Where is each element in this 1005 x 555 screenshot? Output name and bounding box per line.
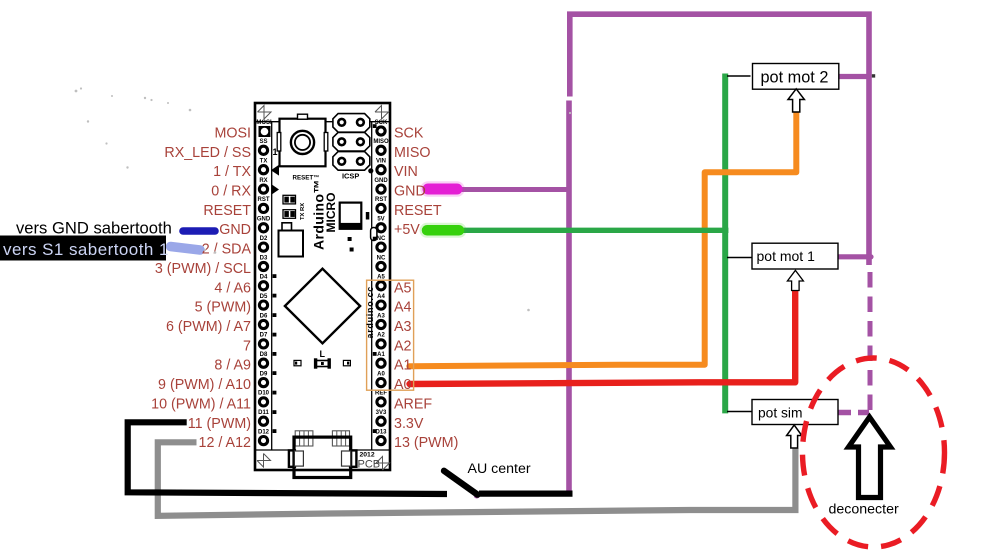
svg-text:7: 7 bbox=[243, 338, 251, 354]
svg-text:NC: NC bbox=[377, 236, 386, 242]
silk: corner fiducial TR bbox=[375, 106, 389, 120]
svg-text:12 / A12: 12 / A12 bbox=[199, 435, 252, 451]
node: purple pivot dot on switch bbox=[474, 492, 480, 498]
svg-text:GND: GND bbox=[219, 222, 251, 238]
svg-text:GND: GND bbox=[257, 217, 271, 223]
labels: right pin names (red) bbox=[394, 126, 458, 452]
svg-text:NC: NC bbox=[377, 255, 386, 261]
pin MOSI (square pad) bbox=[259, 126, 271, 137]
svg-text:1 / TX: 1 / TX bbox=[213, 164, 251, 180]
decorative specks bbox=[75, 87, 572, 311]
pin D11 bbox=[259, 417, 267, 425]
svg-text:D8: D8 bbox=[260, 352, 268, 358]
svg-text:MOSI: MOSI bbox=[214, 126, 251, 142]
silk: TX triangle bbox=[271, 165, 279, 176]
node: navy blob vers GND sabertooth bbox=[183, 227, 215, 235]
component: ICSP header U-ICSP bbox=[333, 114, 370, 171]
svg-text:ICSP: ICSP bbox=[342, 171, 359, 180]
pin A5 bbox=[377, 282, 385, 290]
pin RX bbox=[259, 185, 267, 193]
svg-text:1: 1 bbox=[273, 147, 278, 157]
svg-text:GND: GND bbox=[374, 178, 388, 184]
svg-text:A2: A2 bbox=[394, 338, 412, 354]
pin D2 bbox=[259, 243, 267, 251]
wire: black 11(PWM) to AU center switch bbox=[128, 422, 447, 494]
svg-text:A4: A4 bbox=[394, 300, 412, 316]
component: diamond logo bbox=[285, 269, 360, 344]
svg-text:L: L bbox=[320, 349, 326, 359]
svg-text:MISO: MISO bbox=[394, 145, 431, 161]
svg-text:D9: D9 bbox=[260, 371, 268, 377]
component: reset button bbox=[277, 114, 328, 166]
pin A4 bbox=[377, 301, 385, 309]
node: periwinkle blob vers S1 sabertooth bbox=[171, 247, 201, 251]
svg-text:8 / A9: 8 / A9 bbox=[214, 358, 251, 374]
svg-text:D3: D3 bbox=[260, 255, 268, 261]
pin RST bbox=[259, 204, 267, 212]
svg-text:pot mot 1: pot mot 1 bbox=[757, 248, 816, 264]
silk: RX triangle bbox=[272, 184, 280, 194]
svg-text:SCK: SCK bbox=[375, 120, 388, 126]
component: crystal square bbox=[279, 231, 304, 257]
svg-text:2 / SDA: 2 / SDA bbox=[202, 242, 252, 258]
board: pin strip lines bbox=[255, 121, 390, 123]
svg-text:MISO: MISO bbox=[373, 139, 389, 145]
component: side capsule bbox=[371, 228, 377, 241]
svg-text:A1: A1 bbox=[377, 352, 385, 358]
pin D12 bbox=[259, 437, 267, 445]
svg-text:3.3V: 3.3V bbox=[394, 416, 424, 432]
component: regulator chip bbox=[340, 203, 362, 229]
pin GND bbox=[259, 224, 267, 232]
svg-text:pot mot 2: pot mot 2 bbox=[761, 69, 829, 87]
silk: tiny pin names left bbox=[256, 120, 272, 435]
svg-text:pot sim: pot sim bbox=[758, 406, 802, 421]
svg-text:arduino.cc: arduino.cc bbox=[365, 286, 375, 339]
labels: left pin names (red) bbox=[151, 126, 251, 452]
wire: purple net (GND to top rail and pot boxes) bbox=[455, 14, 872, 492]
svg-text:11 (PWM): 11 (PWM) bbox=[188, 416, 251, 432]
svg-text:SS: SS bbox=[259, 139, 267, 145]
svg-text:D2: D2 bbox=[260, 236, 268, 242]
silk: corner fiducial BR bbox=[376, 457, 390, 471]
svg-text:TX RX: TX RX bbox=[300, 203, 306, 220]
pin A0 bbox=[377, 379, 385, 387]
svg-text:SCK: SCK bbox=[394, 126, 424, 142]
svg-text:A3: A3 bbox=[394, 319, 412, 335]
svg-text:REF: REF bbox=[375, 391, 387, 397]
svg-text:RST: RST bbox=[375, 197, 387, 203]
svg-text:5V: 5V bbox=[377, 217, 384, 223]
svg-text:PCB: PCB bbox=[358, 459, 381, 471]
svg-text:D12: D12 bbox=[258, 429, 270, 435]
box: pot mot 1 bbox=[727, 243, 838, 290]
pin NC bbox=[377, 262, 385, 270]
switch: AU center lever bbox=[444, 471, 478, 495]
svg-text:D11: D11 bbox=[258, 410, 269, 416]
svg-text:RX_LED / SS: RX_LED / SS bbox=[164, 145, 251, 161]
svg-text:A5: A5 bbox=[394, 280, 412, 296]
ARDUINO BOARD bbox=[255, 103, 390, 470]
pin D9 bbox=[259, 379, 267, 387]
svg-text:+5V: +5V bbox=[394, 222, 420, 238]
svg-text:AREF: AREF bbox=[394, 396, 432, 412]
silk: via pads bbox=[273, 124, 377, 433]
pin D13 bbox=[377, 437, 385, 445]
svg-text:10 (PWM) / A11: 10 (PWM) / A11 bbox=[151, 396, 251, 412]
pin TX bbox=[259, 166, 267, 174]
component: RX/TX leds bbox=[283, 195, 296, 218]
pin D5 bbox=[259, 301, 267, 309]
component: small resistor pads left/right of L bbox=[294, 360, 350, 365]
svg-text:5 (PWM): 5 (PWM) bbox=[195, 300, 251, 316]
wire: green +5V vertical bbox=[722, 74, 728, 414]
svg-text:D7: D7 bbox=[260, 333, 268, 339]
pin D10 bbox=[259, 398, 267, 406]
svg-text:TX: TX bbox=[260, 159, 268, 165]
pin A2 bbox=[377, 340, 385, 348]
pin SCK bbox=[377, 127, 385, 135]
silk: corner fiducial BL bbox=[257, 454, 271, 468]
svg-text:A3: A3 bbox=[377, 313, 385, 319]
wire: grey 12/A12 to pot sim bbox=[158, 442, 796, 516]
wire: black from switch to purple rail bbox=[479, 490, 573, 496]
svg-text:A2: A2 bbox=[377, 333, 385, 339]
pin 3V3 bbox=[377, 417, 385, 425]
svg-text:D6: D6 bbox=[260, 313, 268, 319]
box: pot sim bbox=[727, 400, 838, 449]
svg-text:D13: D13 bbox=[375, 429, 387, 435]
silk: corner fiducial TL bbox=[258, 106, 272, 120]
svg-text:MICRO: MICRO bbox=[324, 193, 338, 233]
svg-text:3V3: 3V3 bbox=[376, 410, 387, 416]
pin D6 bbox=[259, 320, 267, 328]
pin D7 bbox=[259, 340, 267, 348]
node: black dot at VIN bbox=[368, 168, 373, 173]
label: vers S1 sabertooth 1 bbox=[0, 236, 166, 261]
svg-text:A0: A0 bbox=[377, 371, 385, 377]
svg-text:VIN: VIN bbox=[376, 159, 386, 165]
svg-text:A4: A4 bbox=[377, 294, 385, 300]
pin A1 bbox=[377, 359, 385, 367]
svg-text:MOSI: MOSI bbox=[256, 120, 272, 126]
pin D3 bbox=[259, 262, 267, 270]
svg-text:RST: RST bbox=[258, 197, 270, 203]
annotation: red dashed ellipse deconecter bbox=[803, 358, 945, 547]
svg-text:RESET: RESET bbox=[394, 203, 442, 219]
box: pot mot 2 bbox=[727, 64, 839, 113]
svg-text:6 (PWM) / A7: 6 (PWM) / A7 bbox=[166, 319, 251, 335]
svg-text:D5: D5 bbox=[260, 294, 268, 300]
pin REF bbox=[377, 398, 385, 406]
svg-text:9 (PWM) / A10: 9 (PWM) / A10 bbox=[158, 377, 251, 393]
pin A3 bbox=[377, 320, 385, 328]
svg-text:D10: D10 bbox=[258, 391, 270, 397]
svg-text:RESET: RESET bbox=[203, 203, 251, 219]
svg-text:2012: 2012 bbox=[360, 452, 375, 459]
svg-text:vers GND sabertooth: vers GND sabertooth bbox=[16, 219, 172, 238]
wire: orange A1 to pot mot 2 bbox=[409, 112, 796, 367]
wire: red A0 to pot mot 1 bbox=[410, 291, 796, 385]
silk: tiny pin names right bbox=[373, 120, 389, 435]
board: outline bbox=[255, 103, 390, 470]
pin SS bbox=[259, 146, 267, 154]
pin D4 bbox=[259, 282, 267, 290]
svg-text:VIN: VIN bbox=[394, 164, 418, 180]
component: micro USB connector bbox=[289, 431, 357, 478]
pin D8 bbox=[259, 359, 267, 367]
svg-text:13 (PWM): 13 (PWM) bbox=[394, 435, 458, 451]
svg-text:RX: RX bbox=[259, 178, 267, 184]
svg-text:AU center: AU center bbox=[468, 461, 531, 477]
node: junction tick right of pot mot 2 bbox=[872, 74, 875, 77]
svg-text:A1: A1 bbox=[394, 358, 412, 374]
pin GND bbox=[377, 185, 385, 193]
svg-text:3 (PWM) / SCL: 3 (PWM) / SCL bbox=[155, 261, 251, 277]
node: green +5V blob at pin bbox=[427, 223, 459, 238]
component: small cap on crystal bbox=[282, 223, 292, 232]
pin 5V bbox=[377, 224, 385, 232]
pin NC bbox=[377, 243, 385, 251]
pin RST bbox=[377, 204, 385, 212]
pin MISO bbox=[377, 146, 385, 154]
svg-text:vers S1 sabertooth 1: vers S1 sabertooth 1 bbox=[3, 240, 169, 259]
svg-text:GND: GND bbox=[394, 184, 426, 200]
svg-text:0 / RX: 0 / RX bbox=[211, 184, 251, 200]
node: magenta GND blob at pin bbox=[428, 181, 457, 197]
annotation: big black arrow deconecter bbox=[849, 417, 891, 498]
highlight: orange box around A5-A0 bbox=[367, 280, 414, 390]
svg-text:D4: D4 bbox=[260, 275, 268, 281]
wire: green +5V horizontal bbox=[440, 228, 728, 233]
svg-text:deconecter: deconecter bbox=[829, 502, 899, 518]
pin VIN bbox=[377, 166, 385, 174]
svg-text:4 / A6: 4 / A6 bbox=[214, 280, 251, 296]
